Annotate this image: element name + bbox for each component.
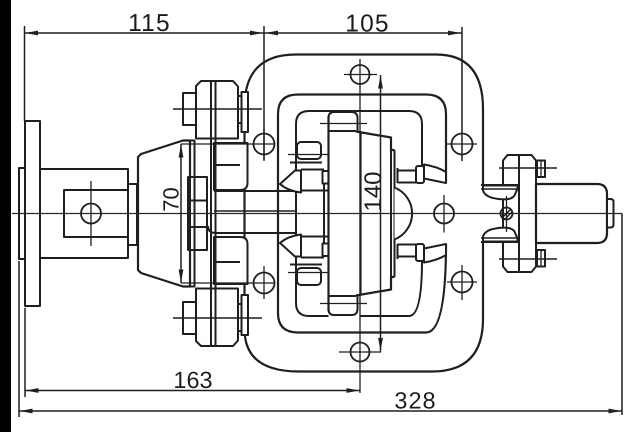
right flange top nut	[537, 161, 545, 178]
top bolt block	[196, 81, 238, 139]
hub block	[188, 177, 207, 250]
mouth lip bottom drip	[483, 228, 518, 242]
pinion tooth top	[280, 171, 301, 193]
housing inner wall W1	[278, 95, 446, 333]
mounting plate edge lines	[210, 81, 212, 346]
extension line left flange face	[24, 26, 26, 121]
right flange plate 1	[503, 155, 519, 272]
top bolt boss	[214, 143, 248, 190]
bearing bracket bottom	[397, 244, 399, 259]
mouth lip top drip	[483, 186, 518, 200]
top bearing cap	[297, 142, 321, 159]
bottom bolt boss	[214, 237, 248, 284]
housing arm band top	[424, 165, 446, 184]
bolt hole vertical centerline / extension	[359, 59, 361, 393]
input shaft hole	[81, 204, 101, 224]
extension line housing right bolt	[461, 27, 463, 161]
spline plate top cap	[323, 171, 331, 184]
output hub cylinder	[536, 184, 607, 243]
bearing bracket top	[397, 168, 399, 183]
bottom bearing cap	[297, 268, 321, 285]
right flange top bolt axis	[499, 167, 557, 169]
right flange bottom bolt axis	[499, 258, 557, 260]
right face bolt hole top	[452, 134, 473, 155]
main horizontal centerline	[12, 213, 622, 215]
bevel gear body	[356, 132, 395, 296]
dimension 70 line	[180, 144, 182, 283]
top bolt axis	[173, 108, 262, 110]
top shim	[416, 166, 424, 183]
spline plate	[323, 172, 325, 255]
extension line housing left bolt	[263, 26, 265, 160]
pinion hub top edge	[301, 169, 324, 171]
hub block groove lines	[188, 200, 207, 202]
scanned page left black margin	[0, 0, 11, 432]
extension line 163 left	[24, 308, 26, 397]
output shaft stub	[607, 199, 614, 228]
svg-text:163: 163	[173, 367, 212, 393]
bearing cap washer line top	[290, 162, 322, 164]
right flange plate 2	[519, 155, 536, 272]
input shaft lower edge	[208, 226, 296, 233]
input shaft keyway line	[214, 210, 296, 212]
input shaft recess	[64, 190, 128, 237]
input flange pilot boss	[19, 168, 25, 259]
top bolt washer	[238, 96, 242, 123]
spacer ring	[128, 184, 137, 245]
top bolt head	[183, 93, 196, 125]
bottom bolt block	[196, 289, 238, 347]
input shaft block	[40, 169, 128, 258]
left flange bolt hole bottom	[254, 273, 275, 294]
right face bolt hole bottom	[452, 272, 473, 293]
extension line 328 right	[621, 214, 623, 416]
bottom bolt back plate	[242, 295, 249, 335]
bearing cap washer line bottom	[290, 264, 322, 266]
dimension 140 line	[380, 75, 382, 352]
bearing cone housing	[138, 141, 190, 287]
cone mounting plate	[190, 141, 195, 287]
bottom bolt axis	[173, 317, 262, 319]
svg-text:105: 105	[345, 11, 389, 38]
housing arm band bottom	[424, 244, 446, 263]
input shaft upper edge	[214, 190, 296, 192]
bottom bolt head	[183, 302, 196, 334]
bottom bolt washer	[238, 304, 242, 331]
bearing dome	[395, 188, 413, 240]
bottom housing bolt hole	[351, 343, 370, 362]
spline plate bottom cap	[323, 244, 331, 257]
top housing bolt hole	[351, 65, 370, 84]
svg-text:70: 70	[159, 187, 184, 211]
dimension 163 line	[25, 390, 360, 392]
extension line 328 left	[18, 261, 20, 417]
pinion hub bottom edge	[301, 257, 324, 259]
svg-text:140: 140	[360, 171, 387, 211]
svg-text:328: 328	[394, 388, 436, 414]
mouth lip bottom lines	[481, 241, 519, 243]
gear top cap	[329, 112, 358, 132]
gearbox outer housing	[245, 55, 484, 372]
mouth lip top lines	[481, 184, 519, 186]
center right bolt hole	[434, 204, 454, 224]
housing inner wall W2	[296, 111, 422, 316]
dimension 328 line	[19, 410, 622, 412]
right flange bottom nut	[537, 250, 545, 267]
input shaft hole vertical centerline	[90, 181, 92, 246]
svg-text:115: 115	[128, 10, 171, 37]
dimension 115 line	[25, 32, 265, 34]
gear bottom cap	[329, 296, 358, 316]
pinion tooth bottom	[280, 235, 301, 257]
left flange bolt hole top	[254, 134, 275, 155]
bottom shim	[416, 244, 424, 261]
dimension 105 line	[264, 32, 462, 34]
gear disc	[329, 112, 361, 320]
oil plug	[501, 208, 513, 220]
top bolt back plate	[242, 92, 249, 132]
input flange disc	[25, 121, 40, 306]
